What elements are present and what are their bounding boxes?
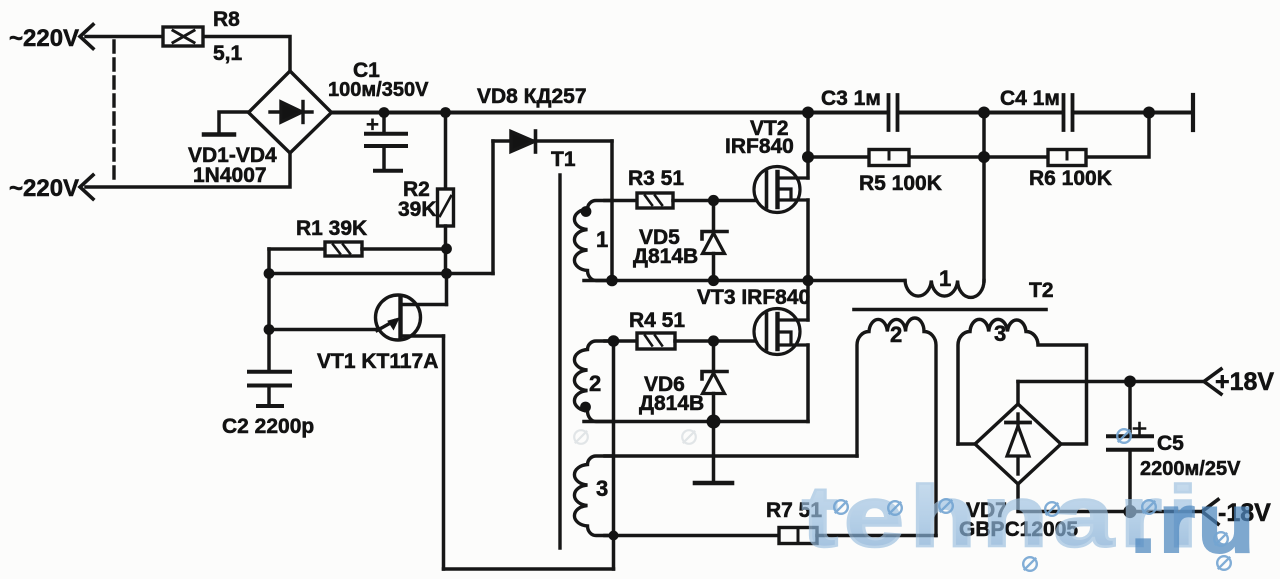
node C5 minus junction (1123, 505, 1136, 518)
node phase dot T1 winding 2 (580, 402, 591, 413)
wire VT1 emitter (269, 328, 379, 332)
svg-text:VT1 KT117A: VT1 KT117A (317, 350, 438, 373)
resistor R2 (444, 113, 448, 190)
wire VT2 source down (806, 200, 810, 281)
svg-text:+18V: +18V (1215, 368, 1274, 396)
node common riser / w2 junction (608, 335, 620, 347)
svg-text:C5: C5 (1157, 432, 1184, 455)
capacitor C1 (382, 113, 386, 133)
node VD5 anode junction (708, 275, 719, 286)
svg-text:~220V: ~220V (9, 25, 79, 52)
diode bridge VD1-VD4 (249, 71, 332, 153)
resistor R4 51 (637, 333, 675, 349)
node R3 / VD5 / VT2 gate junction (708, 195, 719, 206)
wire T1 w1 top to R3 (605, 199, 637, 203)
node VD8 / drive rail junction (606, 275, 618, 287)
node C5 plus junction (1124, 376, 1136, 388)
transformer T1 winding 2 (574, 341, 612, 422)
node phase dot T1 winding 1 (581, 206, 592, 217)
svg-text:R6 100K: R6 100K (1029, 167, 1112, 190)
node VT1 emitter junction (264, 324, 275, 335)
wire VT3 drain up to drive rail (806, 281, 810, 321)
svg-text:2: 2 (589, 371, 601, 396)
wire snubber row (808, 113, 1149, 158)
svg-text:T1: T1 (551, 148, 576, 171)
wire main positive rail (331, 111, 887, 115)
wire T1 w2 top to R4 (605, 339, 637, 343)
wire R4 to VT3 gate (675, 339, 755, 343)
node w3 bottom / common riser junction (609, 531, 619, 541)
ground (695, 481, 732, 486)
svg-text:R5 100K: R5 100K (859, 172, 942, 195)
transformer T1 core (558, 175, 561, 548)
wire w2 bottom rail to VT3 source (584, 420, 808, 424)
node R4 / VD6 / VT3 gate junction (708, 335, 719, 346)
svg-text:5,1: 5,1 (213, 42, 243, 65)
transformer T1 winding 1 (574, 201, 612, 281)
wire R3 to VT2 gate (673, 199, 755, 203)
node -18V arrow (1202, 500, 1218, 525)
capacitor C4 (1064, 95, 1073, 130)
svg-text:R3 51: R3 51 (628, 167, 684, 190)
node +18V arrow (1204, 369, 1221, 394)
capacitor C2 (249, 370, 290, 374)
node R1 / R2 junction (441, 243, 452, 254)
wire drive rail (w1 bottom / VD5 / VT2 source) (584, 279, 905, 283)
resistor R6 100K (1048, 150, 1086, 166)
zener VD5 Д814В (712, 201, 716, 232)
svg-text:R8: R8 (213, 8, 240, 31)
node R2 / rail junction (440, 107, 451, 118)
resistor R7 51 (779, 528, 817, 544)
ground stub at bridge left vertex (219, 112, 249, 132)
node ~220V upper input (80, 25, 93, 49)
transformer T2 winding 1 (905, 281, 984, 298)
svg-text:1: 1 (939, 266, 951, 291)
resistor R1 (269, 247, 325, 251)
svg-text:3: 3 (596, 476, 608, 501)
node ~220V lower input (80, 175, 93, 199)
wire ground branch (712, 422, 716, 482)
wire riser to VD8 (491, 141, 495, 274)
svg-text:39K: 39K (398, 198, 437, 221)
watermark text tehnari.ru (802, 468, 1257, 570)
wire timing line (R1 node to VD8 anode riser) (269, 272, 493, 276)
svg-text:C4 1м: C4 1м (1000, 87, 1060, 110)
svg-text:~220V: ~220V (9, 175, 79, 202)
svg-text:R4 51: R4 51 (629, 309, 685, 332)
wire VT1 B1 down to common rail (442, 336, 446, 569)
svg-text:3: 3 (994, 321, 1006, 346)
wire -18V rail (1018, 484, 1202, 512)
wire left column node (267, 249, 271, 370)
watermark screws faint (574, 430, 696, 444)
svg-text:Д814В: Д814В (633, 245, 698, 268)
capacitor C3 (889, 95, 898, 130)
svg-text:IRF840: IRF840 (725, 135, 794, 158)
node C4 / terminator junction (1143, 107, 1155, 119)
wire C3/C4 node riser to T2 w1 (982, 113, 986, 282)
wire VT1 B2 up (445, 274, 449, 305)
wire T2 w3 left leg to bridge (958, 442, 975, 446)
terminator top right (1191, 95, 1195, 130)
node VT2 drain / rail junction (802, 107, 814, 119)
resistor R3 51 (637, 193, 673, 208)
wire R7 to T2 w2 right leg (817, 534, 936, 538)
svg-text:T2: T2 (1029, 279, 1054, 302)
svg-text:VT3 IRF840: VT3 IRF840 (697, 286, 810, 309)
node R5-R6 junction (978, 151, 990, 163)
svg-text:R1 39K: R1 39K (296, 217, 367, 240)
node VT1 B2 junction (441, 268, 452, 279)
wire VT3 source down (806, 345, 810, 422)
svg-text:C2 2200p: C2 2200p (222, 415, 314, 438)
node left column junction upper (264, 268, 275, 279)
transistor VT3 IRF840 (754, 309, 808, 355)
svg-text:C3 1м: C3 1м (821, 87, 881, 110)
resistor R8 (fuse box with X) (163, 27, 203, 46)
wire +18V rail (1018, 380, 1204, 384)
node C3-C4 / rail junction (978, 107, 990, 119)
wire R8 to bridge top (203, 37, 290, 72)
transformer T1 winding 3 (574, 456, 612, 536)
node C1 / rail junction (379, 107, 390, 118)
node VD6 anode / ground junction (707, 415, 721, 429)
transformer T2 core (854, 308, 1046, 312)
wire lower input to bridge bottom (86, 153, 290, 187)
wire dashed mains pair line (112, 41, 115, 183)
wire common riser (612, 341, 616, 569)
transistor VT2 IRF840 (754, 167, 808, 213)
wire upper input to R8 (86, 35, 163, 39)
wire T1 w3 top to T2 w2 left leg (605, 454, 857, 458)
wire bottom common rail (444, 567, 614, 571)
node VT2 source / VT3 drain junction (802, 275, 813, 286)
svg-text:2: 2 (890, 322, 902, 347)
node VT2 drain / R5 junction (802, 151, 814, 163)
diode VD8 (493, 139, 612, 143)
zener VD6 Д814В (712, 341, 716, 371)
svg-text:Д814В: Д814В (639, 392, 704, 415)
svg-text:100м/350V: 100м/350V (328, 79, 429, 101)
wire VD8 cathode drop (610, 141, 614, 281)
svg-text:VD8 КД257: VD8 КД257 (477, 85, 587, 108)
wire bridge plus riser (1016, 382, 1020, 405)
wire T1 w3 bottom to R7 (605, 534, 779, 538)
transformer T2 winding 2 (857, 318, 936, 536)
transformer T2 winding 3 (958, 319, 1087, 444)
capacitor C5 (1128, 382, 1132, 436)
watermark screws blue (834, 429, 1231, 571)
resistor R5 100K (869, 150, 909, 166)
svg-text:1N4007: 1N4007 (193, 164, 267, 187)
svg-text:.ru: .ru (1130, 476, 1257, 570)
svg-text:1: 1 (596, 227, 608, 252)
transistor VT1 KT117A (376, 295, 447, 340)
diode bridge VD7 GBPC12005 (975, 404, 1061, 484)
wire VT2 drain to rail (806, 113, 810, 179)
